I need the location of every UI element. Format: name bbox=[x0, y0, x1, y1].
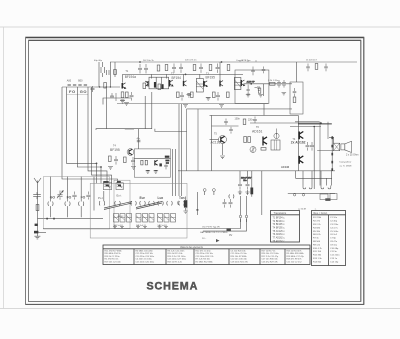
ground T3 base dark bbox=[206, 98, 211, 101]
svg-text:C3 220n: C3 220n bbox=[330, 224, 339, 226]
switch slash 1 bbox=[104, 202, 132, 210]
capacitor C1 antenna bbox=[33, 192, 41, 199]
svg-text:R18 680k C17 47p: R18 680k C17 47p bbox=[287, 256, 305, 258]
coil group 1 box c bbox=[127, 214, 132, 223]
wire AF box left bbox=[186, 109, 188, 171]
resistor R12 bbox=[227, 92, 230, 98]
switch contact pair 2 bbox=[115, 201, 121, 206]
svg-text:C4 220n C5 100u: C4 220n C5 100u bbox=[136, 259, 153, 261]
wire second rail bbox=[123, 73, 244, 75]
svg-text:220n: 220n bbox=[248, 119, 254, 122]
ground fm det 2 bbox=[154, 170, 159, 173]
wire det out bbox=[244, 83, 293, 85]
svg-text:C15 100u C27 100u: C15 100u C27 100u bbox=[168, 259, 187, 261]
resistor R18 driver bbox=[248, 137, 251, 143]
capacitor C22 bbox=[223, 199, 227, 208]
svg-text:C10 68p: C10 68p bbox=[330, 248, 339, 250]
coil group 3 box b bbox=[164, 214, 169, 223]
svg-text:AC132: AC132 bbox=[281, 165, 290, 169]
wire vertical bundle line 2 bbox=[67, 87, 97, 183]
node det junction bbox=[250, 83, 252, 85]
resistor R6 bbox=[158, 84, 161, 90]
svg-text:AF 12: AF 12 bbox=[118, 215, 125, 218]
svg-text:R12 2.2k C11 47p: R12 2.2k C11 47p bbox=[262, 256, 279, 258]
svg-text:C5 100u: C5 100u bbox=[330, 231, 339, 233]
svg-text:R26 10k C12 100u: R26 10k C12 100u bbox=[262, 253, 280, 255]
terminal loop 2 bbox=[321, 186, 331, 189]
ground fm 1 bbox=[108, 167, 113, 170]
svg-text:Pil ~: Pil ~ bbox=[202, 238, 207, 240]
resistor R28 rail right bbox=[315, 64, 318, 70]
transistor T6 AC126 driver bbox=[219, 136, 227, 144]
resistor R10 rail bbox=[209, 65, 212, 71]
svg-text:R19 10k C21 47p: R19 10k C21 47p bbox=[105, 261, 122, 263]
capacitor C12 fm bbox=[114, 156, 118, 165]
svg-text:T7 AD162 c.: T7 AD162 c. bbox=[273, 237, 286, 240]
label fm det dark bbox=[165, 156, 170, 158]
ground T3 cluster bbox=[219, 105, 224, 108]
svg-text:R11 150: R11 150 bbox=[313, 251, 322, 253]
ground row g3 bbox=[136, 225, 140, 229]
wire converter vertical bbox=[96, 92, 152, 130]
wire AF nested box top bbox=[210, 114, 299, 116]
svg-text:Cxx 4A/7B Txx: Cxx 4A/7B Txx bbox=[236, 59, 251, 62]
svg-text:C2 40p: C2 40p bbox=[330, 221, 338, 223]
wire gang section 5 bbox=[103, 191, 105, 201]
svg-text:T1 BF194 c.: T1 BF194 c. bbox=[273, 217, 286, 219]
node rail junction 1 bbox=[139, 61, 140, 62]
scan edge bottom bbox=[0, 308, 400, 310]
svg-text:ALT8 TP: ALT8 TP bbox=[247, 80, 256, 83]
capacitor C19 output bbox=[310, 142, 314, 151]
ground T2 cluster bbox=[183, 105, 188, 108]
ratio detector box bbox=[235, 70, 269, 103]
trimmer CV1 GO bbox=[57, 191, 63, 200]
resistor R31 converter bbox=[114, 70, 117, 75]
wire fm feed vertical 2 bbox=[155, 129, 187, 132]
svg-text:C11 5n: C11 5n bbox=[330, 251, 338, 253]
wire feedback drop bbox=[296, 62, 298, 82]
svg-text:SCHEMA: SCHEMA bbox=[147, 281, 199, 293]
wire det to AF bbox=[263, 104, 265, 115]
wire AF lower rail bbox=[178, 170, 335, 172]
capacitor C25 mid bbox=[246, 181, 250, 190]
wire C25 up bbox=[247, 171, 249, 195]
IF can TR4 bbox=[234, 78, 241, 90]
wire fm horizontal bbox=[125, 128, 134, 130]
node wire junction b bbox=[106, 86, 107, 87]
resistor R9 bbox=[191, 92, 194, 98]
node tuner junction 2 bbox=[53, 218, 54, 219]
svg-text:100n: 100n bbox=[235, 118, 241, 121]
capacitor C21 electrolytic bbox=[184, 197, 187, 211]
svg-text:AC126: AC126 bbox=[211, 141, 221, 145]
svg-text:FO: FO bbox=[81, 196, 86, 200]
fm discriminator box bbox=[134, 149, 170, 177]
ground det 1 bbox=[246, 94, 251, 97]
resistor R13 fm bbox=[109, 156, 112, 162]
wire lower right rail bbox=[288, 192, 335, 194]
capacitor C37 above det bbox=[251, 67, 255, 76]
node wire junction c bbox=[110, 86, 111, 87]
capacitor C34 af bbox=[253, 117, 257, 124]
border frame inner bbox=[29, 40, 361, 301]
feedback box right bbox=[290, 82, 303, 114]
svg-text:C13 100u R13 2.2k: C13 100u R13 2.2k bbox=[196, 256, 215, 258]
wire supply rail top bbox=[110, 61, 357, 63]
svg-text:R12 33k: R12 33k bbox=[313, 255, 322, 257]
wire output right vertical 1 bbox=[319, 122, 321, 186]
svg-text:C7 8p: C7 8p bbox=[330, 238, 337, 240]
ground row g6 bbox=[164, 225, 168, 229]
switch contact pair 4 bbox=[140, 201, 146, 206]
svg-text:C18 220n R21 47k: C18 220n R21 47k bbox=[231, 261, 249, 263]
volume dash bbox=[196, 209, 198, 210]
jack socket J1 bbox=[203, 189, 206, 195]
trimmer CV2 FO bbox=[72, 192, 76, 200]
svg-text:C13 1n: C13 1n bbox=[330, 258, 338, 260]
wire tuner ground rail bbox=[38, 218, 104, 220]
transistor T5 detector bbox=[241, 80, 244, 86]
svg-text:C15 100u C5 10n: C15 100u C5 10n bbox=[231, 253, 248, 255]
svg-text:R2 47k: R2 47k bbox=[313, 221, 321, 223]
node rail junction 2 bbox=[185, 74, 186, 75]
svg-text:A00: A00 bbox=[67, 80, 72, 83]
wire terminal column line bbox=[331, 136, 333, 171]
capacitor C32 rail right bbox=[324, 64, 328, 72]
svg-text:BF194: BF194 bbox=[172, 76, 182, 80]
scan edge left bbox=[3, 27, 5, 309]
wire bottom rail tuner bbox=[43, 228, 203, 230]
transformer terminal column bbox=[331, 137, 333, 171]
tuning gang box bbox=[44, 177, 110, 230]
ground row g5 bbox=[158, 225, 162, 229]
node wire junction a bbox=[99, 86, 100, 87]
svg-text:AD161: AD161 bbox=[252, 130, 262, 134]
wire output bias 2 bbox=[290, 126, 321, 128]
wire vertical bundle line 4 bbox=[88, 87, 107, 183]
battery note arrow bbox=[216, 239, 220, 242]
antenna bbox=[34, 178, 41, 187]
capacitor C26 fm det bbox=[164, 162, 168, 169]
svg-text:GO: GO bbox=[80, 89, 87, 94]
node bias junction 2 bbox=[313, 126, 315, 128]
svg-text:GO: GO bbox=[50, 196, 56, 200]
resistor R22 fm det bbox=[145, 160, 147, 165]
wire prong stems up bbox=[241, 196, 247, 215]
capacitor C31 rail right bbox=[306, 64, 310, 72]
ground antenna bbox=[34, 236, 40, 239]
ground det out bbox=[282, 93, 287, 96]
node stair junction 2 bbox=[100, 166, 101, 167]
resistor R7 rail bbox=[157, 65, 160, 71]
wire output mid vertical bbox=[313, 127, 315, 190]
svg-text:R1 220k: R1 220k bbox=[313, 217, 322, 219]
coil box S1a bbox=[103, 183, 111, 190]
svg-text:R26 1k R24 47k: R26 1k R24 47k bbox=[287, 250, 303, 252]
wire agc vertical 1 bbox=[178, 104, 180, 196]
svg-text:C27 10n R30 10k: C27 10n R30 10k bbox=[262, 259, 279, 261]
ground fm det 1 bbox=[146, 170, 151, 173]
capacitor C9 rail bbox=[172, 64, 176, 73]
wire can stub 1 bbox=[150, 74, 152, 78]
svg-text:R10 1k R15 10k: R10 1k R15 10k bbox=[168, 253, 184, 255]
ground row g2 bbox=[120, 225, 124, 229]
svg-text:1k 220 4n7: 1k 220 4n7 bbox=[306, 60, 318, 62]
wire T1 collector up bbox=[122, 74, 124, 82]
wire fm agc pair a bbox=[172, 149, 174, 196]
wire det inner vertical bbox=[262, 84, 264, 96]
svg-text:C15 220n R12 10k: C15 220n R12 10k bbox=[136, 253, 154, 255]
wire fm det horizontal bbox=[134, 158, 170, 160]
border frame inner right dark edge bbox=[360, 40, 362, 301]
resistor R14 fm bbox=[124, 157, 127, 163]
transistor TR1 input blob bbox=[145, 81, 148, 87]
wire fm cluster top bbox=[103, 98, 131, 105]
IF can TR3 bbox=[196, 79, 203, 93]
wire AF mid vertical bbox=[211, 115, 213, 170]
capacitor C28 rail bbox=[199, 64, 203, 73]
capacitor C27 rail bbox=[179, 64, 183, 73]
wire C24 up bbox=[239, 171, 241, 195]
resistor R15 det out bbox=[270, 82, 276, 85]
resistor R11 bbox=[213, 92, 216, 98]
svg-text:5uF 5uF: 5uF 5uF bbox=[136, 225, 144, 227]
wire output bottom drop 5 bbox=[331, 171, 333, 186]
coil group 2 box a bbox=[136, 214, 141, 223]
wire input drop bbox=[98, 62, 100, 87]
capacitor C29 rail bbox=[216, 64, 220, 73]
switch hook mid bbox=[229, 194, 234, 198]
wire volume vertical bbox=[196, 192, 198, 215]
svg-text:R24 10k R7 680k: R24 10k R7 680k bbox=[231, 256, 248, 258]
capacitor C2 input bbox=[101, 62, 105, 77]
wire battery leads bbox=[203, 219, 247, 231]
terminal circle 2 bbox=[302, 194, 304, 196]
svg-text:5uF 5uF: 5uF 5uF bbox=[114, 225, 122, 227]
svg-text:C10 220n C24 100u: C10 220n C24 100u bbox=[136, 256, 155, 258]
wire gang section 4 bbox=[93, 177, 95, 211]
svg-text:R5 680k R20 680k: R5 680k R20 680k bbox=[287, 253, 305, 255]
transistors table bbox=[271, 211, 300, 243]
coil group 1 box b bbox=[120, 214, 125, 223]
resistor R23 fm det bbox=[141, 160, 143, 165]
svg-text:C9 10u: C9 10u bbox=[330, 244, 338, 246]
svg-text:Transistors: Transistors bbox=[274, 211, 287, 215]
svg-text:BF194a: BF194a bbox=[125, 75, 136, 79]
svg-text:T6 AD161 c.: T6 AD161 c. bbox=[273, 233, 286, 236]
capacitor C16 bbox=[282, 80, 286, 88]
svg-text:C25 220n C20 100u: C25 220n C20 100u bbox=[136, 261, 155, 263]
transistor T9 AD162 lower bbox=[299, 156, 303, 164]
wire gang section 3 bbox=[80, 177, 82, 218]
svg-text:Res. / Cond.: Res. / Cond. bbox=[314, 212, 328, 215]
svg-text:C10 10n C30 47p: C10 10n C30 47p bbox=[231, 259, 248, 261]
coil group 2 box b bbox=[143, 214, 148, 223]
battery B1 bbox=[227, 229, 231, 232]
border frame bottom dark edge bbox=[26, 303, 364, 305]
wire AF box top bbox=[187, 108, 292, 110]
capacitor C39 fm feed bbox=[137, 140, 141, 142]
svg-text:R11 47k R27 680k: R11 47k R27 680k bbox=[105, 250, 123, 252]
label Fo trimmer 3 bbox=[91, 61, 241, 196]
svg-text:R8 560: R8 560 bbox=[313, 241, 321, 243]
resistor R27 af bbox=[261, 148, 266, 151]
capacitor C5 bbox=[110, 93, 116, 101]
svg-text:R28 47k R9 47k: R28 47k R9 47k bbox=[287, 259, 303, 261]
driver transformer TR5 bbox=[271, 140, 280, 150]
potentiometer P3 volume bbox=[250, 147, 256, 153]
wire left tuner horizontal bbox=[62, 86, 96, 88]
switch hook ton bbox=[177, 201, 180, 205]
svg-text:R9 12k: R9 12k bbox=[313, 244, 321, 246]
svg-text:T4 BF195 c.: T4 BF195 c. bbox=[273, 227, 286, 229]
ground C21 bbox=[183, 211, 187, 214]
wire transformer top feed bbox=[329, 137, 334, 143]
wire AF mid horizontal bbox=[212, 125, 239, 127]
switch contact pair 5 bbox=[149, 201, 155, 206]
resistor R25 rail bbox=[193, 65, 196, 71]
svg-text:R14 82k: R14 82k bbox=[313, 261, 322, 263]
svg-text:R1 680k R12 680k: R1 680k R12 680k bbox=[196, 261, 214, 263]
capacitor C33 af bbox=[224, 119, 228, 126]
wire antenna lead bbox=[37, 187, 39, 236]
ground C24 bbox=[238, 192, 242, 195]
fm det dark marks bbox=[165, 160, 169, 164]
transistor T2 BF194 bbox=[170, 80, 187, 87]
svg-text:BF195: BF195 bbox=[206, 76, 216, 80]
ground R3 bbox=[120, 100, 125, 103]
jack socket J2 bbox=[213, 189, 216, 195]
wire AF inner vertical bbox=[197, 109, 199, 171]
wire converter drop 2 bbox=[114, 62, 116, 77]
switch contact pair 8 bbox=[179, 201, 185, 206]
coil group 2 box c bbox=[149, 214, 154, 223]
svg-text:Voir Pil 9V Typ 2R: Voir Pil 9V Typ 2R bbox=[202, 226, 220, 229]
ground T1 cluster bbox=[124, 103, 129, 106]
switch assembly box bbox=[90, 183, 187, 238]
wire vertical right mid bbox=[261, 171, 263, 215]
capacitor C35 electrolytic dark bbox=[250, 171, 253, 197]
wire transformer left feed bbox=[317, 150, 333, 152]
border frame right dark edge bbox=[363, 37, 365, 304]
speaker LS1 bbox=[341, 141, 352, 152]
svg-text:Eur: Eur bbox=[140, 196, 146, 200]
switch slash 2 bbox=[136, 202, 162, 210]
svg-text:BATTERIE VOLT 9 V PRES: BATTERIE VOLT 9 V PRES bbox=[200, 231, 228, 234]
wire fm feed vertical bbox=[138, 129, 140, 149]
scan edge top bbox=[0, 26, 400, 28]
svg-text:R23 1k R5 2.2k: R23 1k R5 2.2k bbox=[168, 261, 183, 263]
coil group 3 box a bbox=[158, 214, 163, 223]
wire T3 collector bbox=[219, 62, 221, 81]
ground det 2 bbox=[258, 95, 263, 98]
svg-text:40p 40p: 40p 40p bbox=[94, 60, 103, 62]
svg-text:C12 220u: C12 220u bbox=[330, 255, 340, 257]
resistor R16 inside feedback bbox=[293, 97, 296, 103]
svg-text:R18 1k C2 220n: R18 1k C2 220n bbox=[105, 256, 121, 258]
transistor T3 BF195 bbox=[204, 81, 223, 87]
svg-text:R4 680k C16 220n: R4 680k C16 220n bbox=[136, 250, 154, 252]
svg-text:2.2k 1.20n: 2.2k 1.20n bbox=[268, 80, 279, 82]
resistor R17 driver bias bbox=[244, 137, 247, 143]
svg-text:haut-parleur: haut-parleur bbox=[340, 160, 352, 163]
capacitor C3 input bbox=[107, 70, 110, 75]
capacitor C6 bbox=[130, 92, 134, 101]
capacitor C13 fm bbox=[131, 157, 135, 166]
svg-text:R30 680k R14 1k: R30 680k R14 1k bbox=[105, 253, 122, 255]
svg-text:9V: 9V bbox=[229, 233, 232, 237]
wire output right vertical 2 bbox=[327, 122, 329, 139]
resistor R5 bbox=[143, 83, 146, 89]
parts strip table bbox=[103, 245, 310, 265]
capacitor C18 output bbox=[306, 142, 310, 151]
battery connector prong 1 bbox=[239, 215, 242, 222]
resistor R30 det bbox=[258, 88, 260, 93]
switch contact pair 7 bbox=[167, 201, 173, 206]
wire converter down left bbox=[105, 87, 107, 129]
transistor T8 AD162 upper bbox=[299, 132, 303, 140]
svg-text:T5 AC126 c.: T5 AC126 c. bbox=[273, 230, 286, 233]
svg-text:C20 220n C20 10n: C20 220n C20 10n bbox=[196, 253, 214, 255]
svg-text:R13 1.5k: R13 1.5k bbox=[313, 258, 323, 260]
coil group 3 box c bbox=[171, 214, 176, 223]
svg-text:T2 BF194 c.: T2 BF194 c. bbox=[273, 221, 286, 223]
node stair junction 1 bbox=[96, 163, 97, 164]
capacitor C4 coupling bbox=[91, 86, 95, 92]
switch contact pair 1 bbox=[99, 201, 105, 206]
trimmer antenna cluster bbox=[34, 224, 38, 234]
terminal circle 1 bbox=[293, 194, 295, 196]
output transformer TR6 bbox=[334, 143, 340, 150]
transistor T1 BF194 bbox=[122, 83, 125, 89]
oscillator box bbox=[114, 180, 130, 229]
capacitor C15 bbox=[277, 80, 281, 88]
svg-text:C8 47n: C8 47n bbox=[330, 241, 338, 243]
node rail junction 3 bbox=[221, 61, 222, 62]
switch hook GO bbox=[48, 202, 53, 206]
transistor T4 BF195 FM bbox=[127, 149, 134, 156]
svg-text:Valeurs des elements: Valeurs des elements bbox=[180, 246, 204, 249]
capacitor C8 rail bbox=[144, 64, 148, 73]
capacitor C36 det h bbox=[255, 86, 260, 90]
svg-text:FO: FO bbox=[69, 89, 76, 94]
wire vertical bundle line 5 bbox=[92, 87, 112, 183]
transistor T7 AD161 bbox=[263, 137, 267, 146]
switch hook FO1 bbox=[65, 202, 70, 206]
svg-text:T3 BF195 c.: T3 BF195 c. bbox=[273, 224, 286, 226]
wire det top text row ticks bbox=[240, 60, 256, 62]
resistor R8 bbox=[177, 92, 180, 98]
border frame inner top dark edge bbox=[29, 39, 361, 41]
wire T2 collector bbox=[183, 74, 185, 80]
jack cluster right bbox=[320, 194, 337, 201]
switch contact pair 6 bbox=[158, 201, 164, 206]
coil box top label MW bbox=[103, 181, 108, 183]
border frame outer bbox=[26, 37, 364, 304]
wire can stub 2 bbox=[166, 74, 168, 78]
svg-text:C5 2n2 R20 10k: C5 2n2 R20 10k bbox=[231, 250, 247, 252]
svg-text:2k2 10n 1k: 2k2 10n 1k bbox=[143, 60, 155, 62]
ground row g1 bbox=[113, 225, 117, 229]
capacitor C24 mid bbox=[238, 181, 242, 190]
wire output bottom drop 4 bbox=[325, 178, 327, 185]
coil L2 GO ferrite marks bbox=[78, 84, 87, 85]
svg-text:R7 1k: R7 1k bbox=[313, 238, 320, 240]
svg-text:C11 2n2 C2 2n2: C11 2n2 C2 2n2 bbox=[287, 261, 303, 263]
svg-text:5uF 5uF: 5uF 5uF bbox=[158, 225, 166, 227]
coil box S1b bbox=[116, 183, 123, 190]
